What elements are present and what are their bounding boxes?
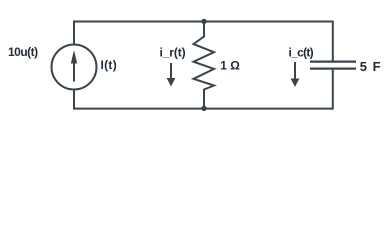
svg-text:i_c(t): i_c(t): [289, 45, 314, 59]
svg-text:1 Ω: 1 Ω: [220, 59, 240, 73]
svg-text:10u(t): 10u(t): [8, 45, 38, 59]
svg-text:5 F: 5 F: [360, 59, 382, 74]
svg-text:i_r(t): i_r(t): [160, 45, 186, 59]
svg-text:I(t): I(t): [101, 58, 118, 72]
